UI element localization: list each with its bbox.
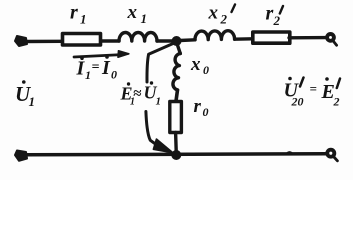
svg-text:r: r bbox=[70, 1, 78, 23]
svg-text:≈: ≈ bbox=[133, 86, 142, 102]
svg-text:r: r bbox=[266, 3, 274, 25]
wire top-left bbox=[25, 40, 62, 44]
svg-text:2: 2 bbox=[273, 13, 281, 28]
resistor r1 bbox=[63, 34, 101, 46]
wire x0 to r0 bbox=[176, 90, 178, 101]
current arrow I1=I0 bbox=[74, 55, 122, 57]
node B (bottom junction) bbox=[171, 150, 181, 160]
label E1 ~ U1 (middle) bbox=[120, 81, 162, 107]
wire r0 to bottom node bbox=[174, 133, 178, 152]
junction tick on bottom rail bbox=[287, 152, 292, 153]
resistor r2' bbox=[253, 32, 290, 43]
label r1 bbox=[70, 1, 87, 26]
svg-text:1: 1 bbox=[85, 68, 91, 82]
wire node to x0 bbox=[177, 45, 180, 54]
svg-text:0: 0 bbox=[203, 105, 209, 119]
label r0 bbox=[194, 96, 209, 119]
terminal bottom-left bbox=[15, 151, 27, 161]
voltage arrow E1 (upper segment) bbox=[147, 44, 173, 82]
svg-text:2: 2 bbox=[333, 95, 340, 109]
svg-text:=: = bbox=[92, 60, 100, 75]
svg-text:x: x bbox=[208, 2, 219, 23]
inductor x2' bbox=[195, 31, 235, 40]
svg-text:x: x bbox=[190, 54, 201, 75]
svg-text:1: 1 bbox=[80, 12, 87, 27]
inductor x1 bbox=[119, 33, 157, 42]
svg-text:r: r bbox=[194, 96, 202, 117]
label x0 bbox=[190, 54, 209, 77]
svg-text:2: 2 bbox=[220, 12, 228, 27]
terminal top-left bbox=[15, 36, 27, 46]
label U1 (left) bbox=[15, 80, 35, 109]
label x1 bbox=[127, 2, 148, 26]
terminal top-right bbox=[327, 34, 334, 41]
wire x1 to node bbox=[157, 39, 172, 42]
svg-text:1: 1 bbox=[156, 96, 162, 108]
node A (top junction) bbox=[172, 36, 182, 46]
label I1 = I0 bbox=[76, 55, 118, 82]
svg-text:20: 20 bbox=[291, 95, 304, 109]
svg-text:=: = bbox=[310, 81, 317, 96]
inductor x0 bbox=[173, 54, 180, 91]
wire node to x2' bbox=[180, 38, 195, 42]
wire r1 to x1 bbox=[101, 39, 119, 42]
svg-text:0: 0 bbox=[203, 63, 209, 77]
svg-text:I: I bbox=[101, 57, 111, 79]
voltage arrow E1 (lower segment with arrowhead) bbox=[146, 112, 156, 145]
wire r2' to terminal bbox=[289, 36, 326, 40]
svg-text:0: 0 bbox=[111, 68, 117, 82]
wire x2' to r2' bbox=[235, 37, 252, 41]
svg-text:1: 1 bbox=[141, 11, 148, 26]
terminal bottom-right bbox=[327, 150, 334, 157]
svg-text:I: I bbox=[76, 58, 86, 80]
svg-text:1: 1 bbox=[29, 94, 36, 109]
label U'20 = E'2 (right) bbox=[284, 77, 341, 109]
svg-text:x: x bbox=[127, 2, 138, 23]
label x2' bbox=[208, 2, 236, 26]
resistor r0 bbox=[170, 102, 182, 133]
wire bottom rail bbox=[25, 154, 326, 155]
label r2' bbox=[266, 3, 284, 29]
